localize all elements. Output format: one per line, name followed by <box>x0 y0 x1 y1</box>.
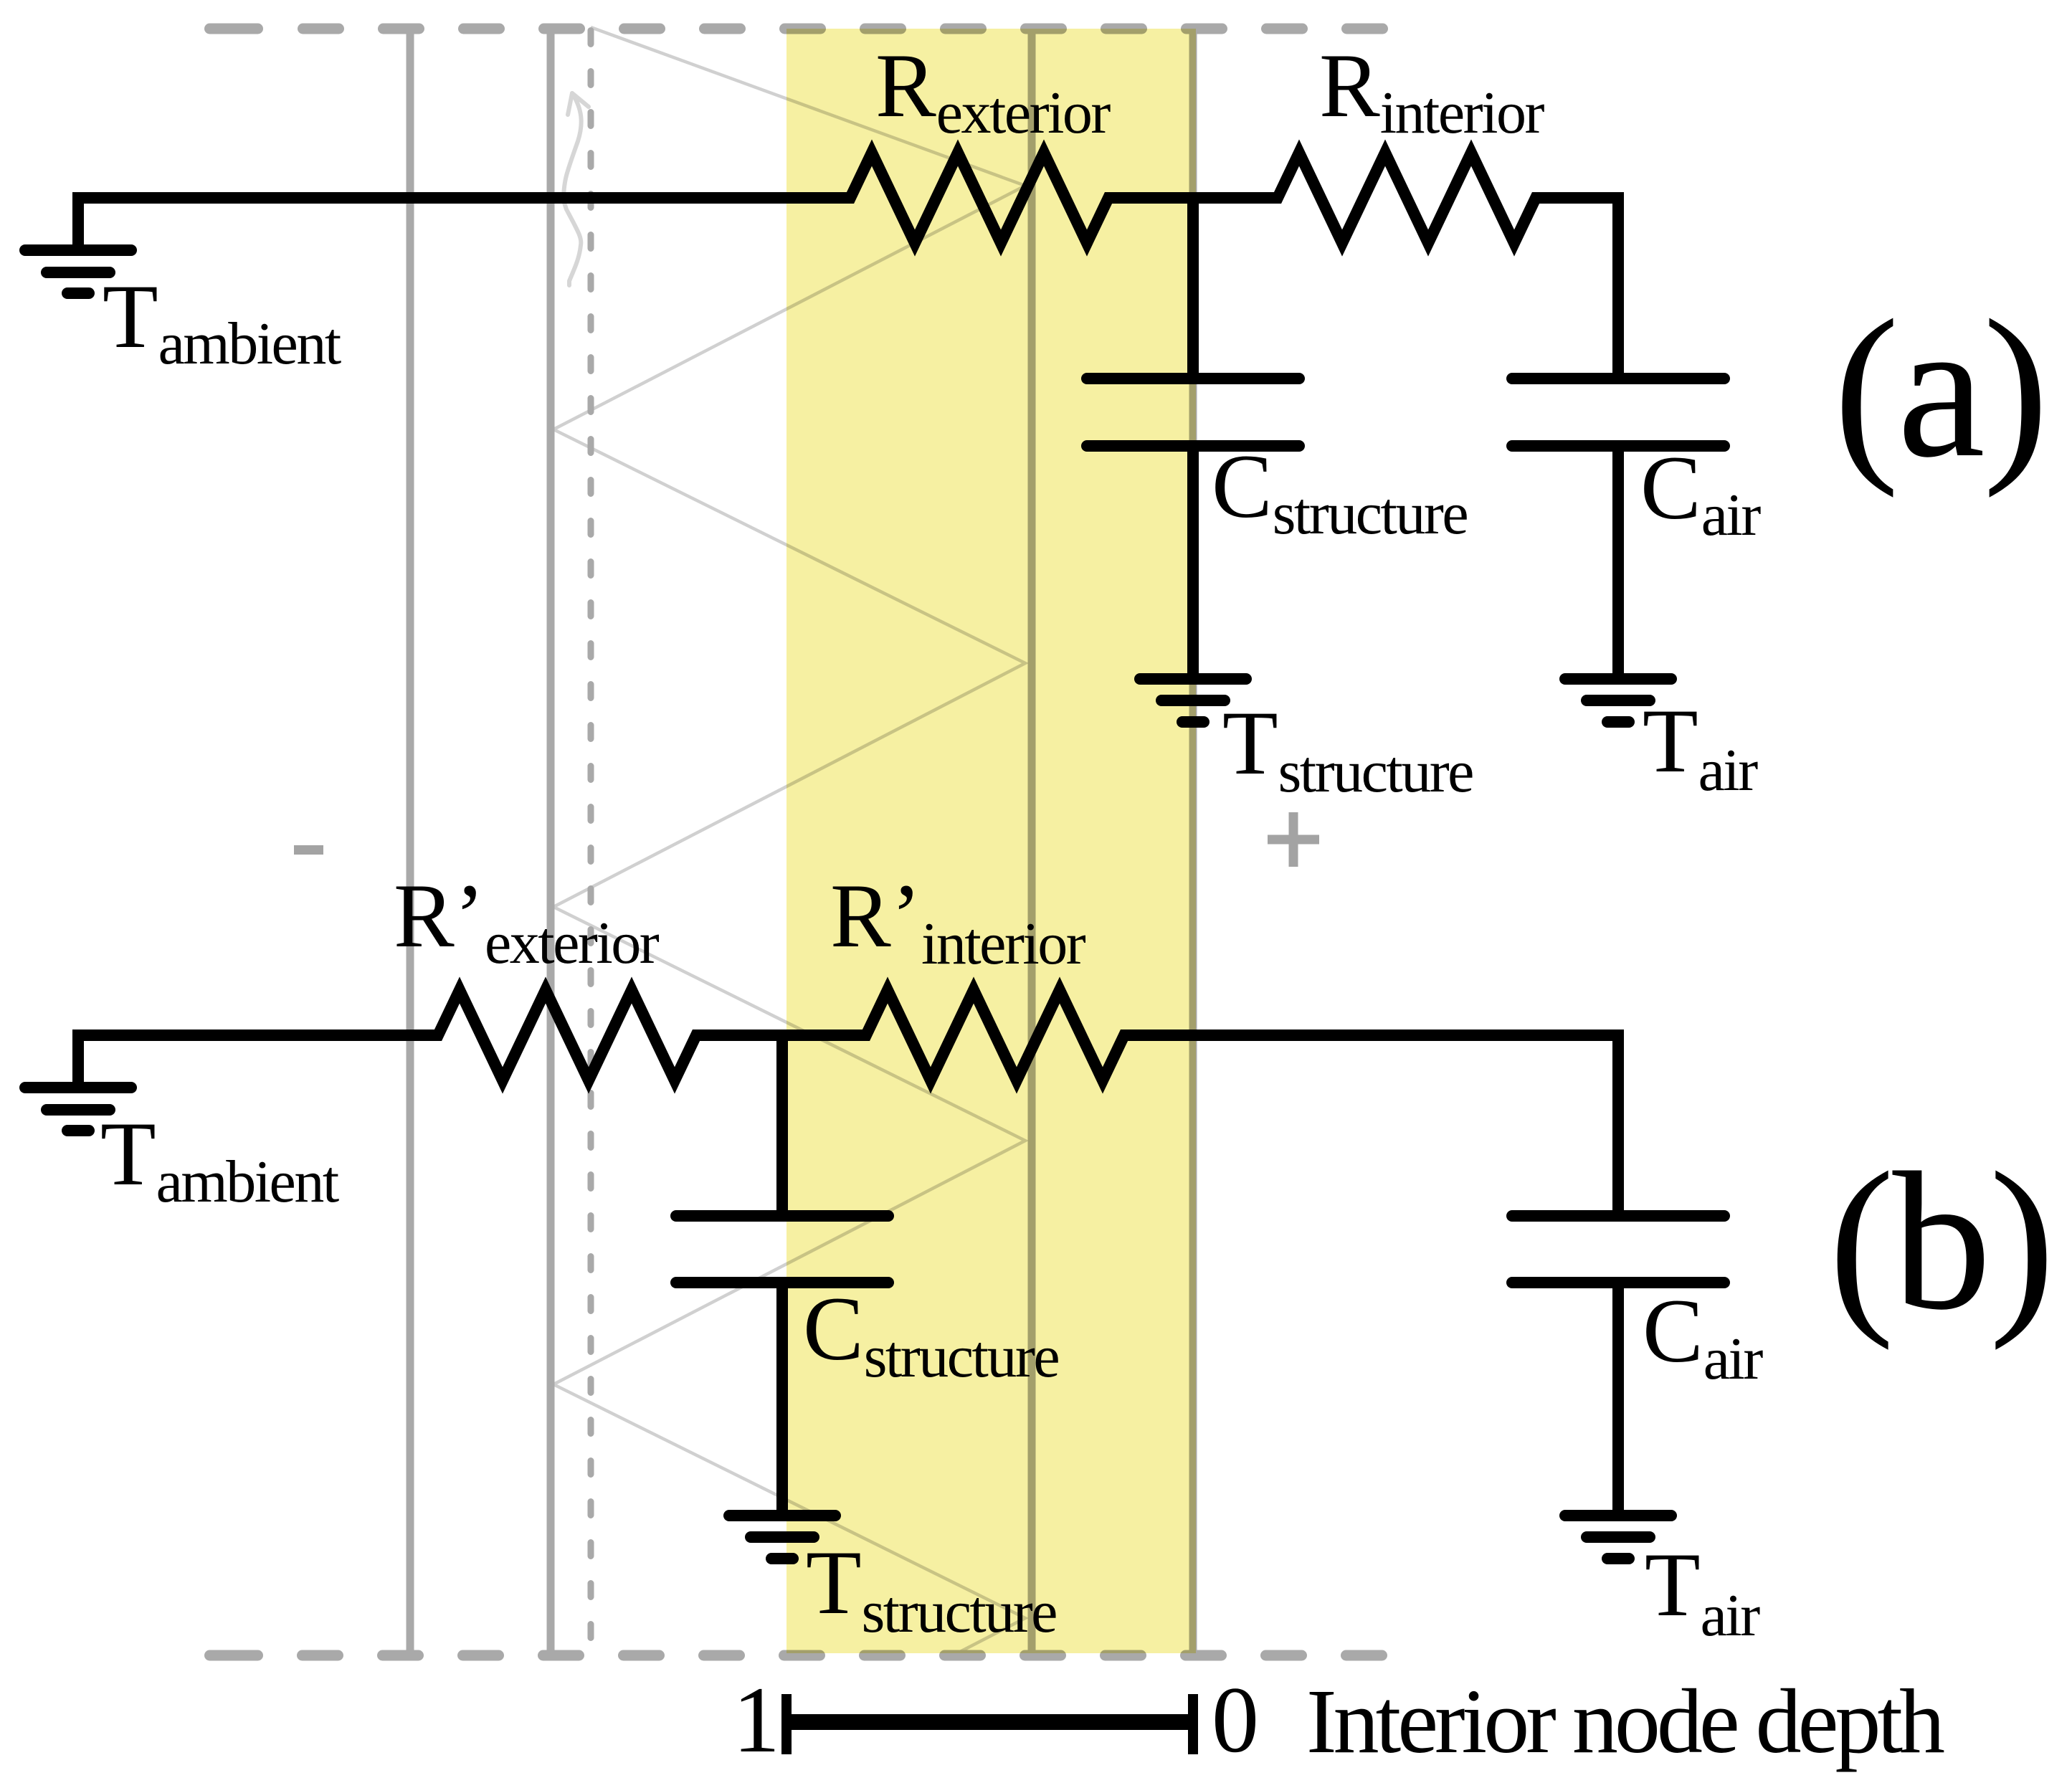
svg-text:1: 1 <box>733 1667 780 1772</box>
svg-text:(a): (a) <box>1833 279 2046 498</box>
svg-text:(b): (b) <box>1829 1131 2053 1351</box>
svg-text:0: 0 <box>1212 1667 1259 1772</box>
svg-text:Interior node depth: Interior node depth <box>1306 1670 1944 1772</box>
